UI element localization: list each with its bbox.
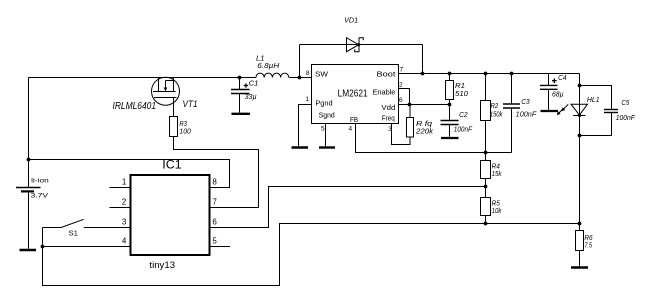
svg-text:7: 7 [212, 198, 217, 207]
svg-text:4: 4 [122, 236, 127, 245]
svg-text:100nF: 100nF [516, 109, 537, 118]
svg-text:33µ: 33µ [245, 92, 257, 101]
svg-text:10k: 10k [492, 206, 502, 215]
svg-text:100nF: 100nF [616, 113, 636, 122]
svg-text:HL1: HL1 [587, 95, 600, 104]
svg-text:C1: C1 [249, 78, 259, 87]
svg-text:1: 1 [305, 96, 309, 103]
svg-text:C5: C5 [621, 98, 630, 107]
svg-text:R2: R2 [491, 101, 499, 110]
svg-text:6: 6 [399, 97, 403, 104]
svg-text:3.7V: 3.7V [31, 193, 49, 200]
svg-text:LM2621: LM2621 [338, 89, 368, 100]
svg-text:220k: 220k [415, 126, 434, 135]
svg-text:6: 6 [212, 217, 217, 226]
svg-text:SW: SW [315, 69, 329, 78]
svg-text:C4: C4 [558, 73, 566, 82]
svg-text:Sgnd: Sgnd [319, 111, 335, 120]
svg-text:S1: S1 [69, 228, 79, 237]
svg-text:68µ: 68µ [552, 90, 564, 99]
svg-text:4: 4 [349, 126, 353, 133]
svg-text:1: 1 [122, 177, 127, 186]
svg-text:tiny13: tiny13 [149, 260, 175, 270]
svg-text:5: 5 [212, 237, 217, 246]
svg-text:VT1: VT1 [183, 99, 198, 109]
svg-text:8: 8 [306, 70, 310, 77]
svg-text:Enable: Enable [373, 88, 396, 97]
svg-text:8: 8 [212, 178, 217, 187]
svg-text:7.5: 7.5 [584, 241, 592, 250]
svg-text:100: 100 [179, 126, 191, 135]
svg-text:3: 3 [388, 126, 392, 133]
svg-text:2: 2 [399, 82, 403, 89]
svg-text:VD1: VD1 [344, 16, 358, 25]
svg-text:C2: C2 [459, 110, 468, 119]
svg-text:3: 3 [122, 217, 127, 226]
svg-text:Boot: Boot [377, 70, 397, 79]
svg-text:510: 510 [455, 89, 468, 98]
svg-text:150k: 150k [490, 110, 503, 119]
svg-text:Pgnd: Pgnd [315, 98, 332, 107]
svg-text:IC1: IC1 [162, 157, 182, 171]
svg-text:5: 5 [321, 126, 325, 133]
svg-text:7: 7 [400, 67, 404, 74]
svg-text:IRLML6401: IRLML6401 [113, 101, 157, 112]
svg-text:15k: 15k [492, 169, 502, 178]
svg-text:6.8µH: 6.8µH [257, 61, 280, 70]
svg-text:Freq: Freq [382, 114, 395, 123]
svg-text:100nF: 100nF [454, 125, 473, 134]
svg-text:C3: C3 [521, 97, 529, 106]
svg-text:FB: FB [350, 115, 358, 124]
svg-text:2: 2 [122, 197, 127, 206]
svg-text:Vdd: Vdd [381, 103, 395, 112]
svg-text:li-ion: li-ion [31, 178, 49, 185]
